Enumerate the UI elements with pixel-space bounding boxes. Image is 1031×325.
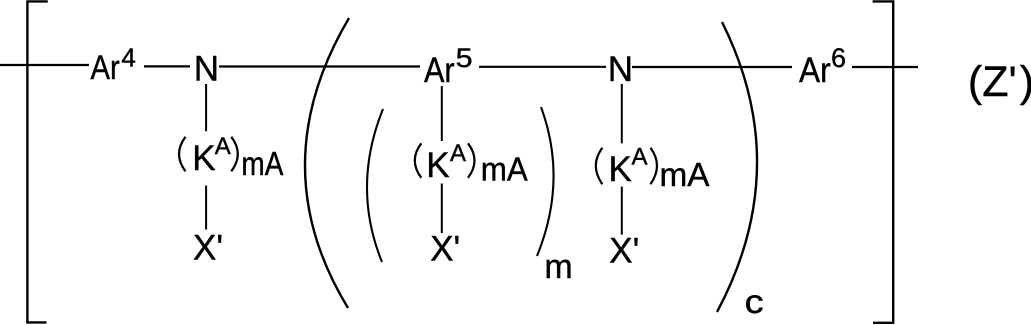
svg-text:X': X' [609, 231, 639, 270]
svg-text:N: N [194, 50, 219, 89]
svg-text:K: K [192, 139, 215, 178]
svg-text:Ar: Ar [799, 51, 831, 90]
svg-text:A: A [215, 133, 231, 160]
svg-text:X': X' [430, 230, 460, 269]
svg-text:K: K [609, 150, 632, 189]
svg-text:Ar: Ar [91, 49, 120, 87]
svg-text:Ar: Ar [424, 51, 455, 90]
svg-text:mA: mA [481, 151, 528, 188]
svg-text:A: A [632, 144, 648, 171]
svg-text:N: N [608, 50, 633, 89]
svg-text:mA: mA [660, 156, 710, 193]
svg-text:A: A [450, 140, 466, 167]
svg-text:c: c [745, 283, 764, 320]
svg-text:X': X' [193, 229, 223, 268]
svg-text:mA: mA [241, 145, 283, 182]
svg-text:6: 6 [831, 43, 846, 73]
svg-text:4: 4 [121, 43, 135, 73]
svg-text:m: m [544, 248, 572, 286]
svg-text:(Z'): (Z') [968, 58, 1031, 106]
svg-text:5: 5 [456, 43, 473, 73]
svg-text:K: K [426, 146, 449, 185]
